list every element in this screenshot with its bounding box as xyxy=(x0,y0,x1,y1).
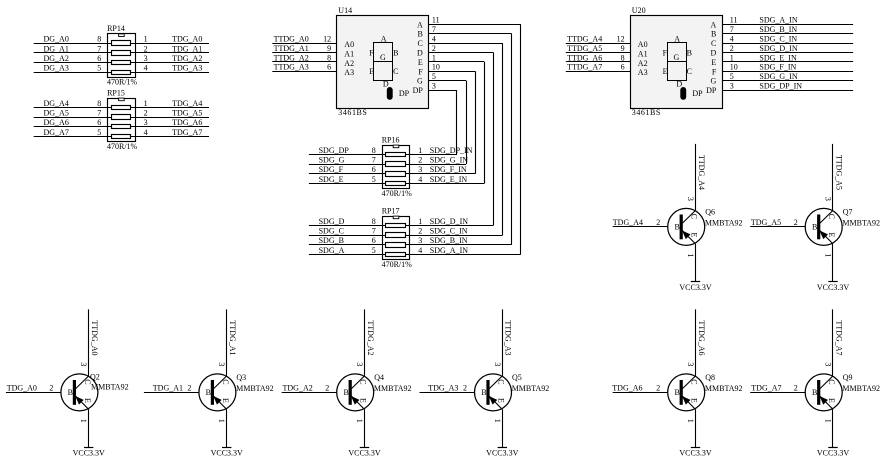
svg-text:SDG_D_IN: SDG_D_IN xyxy=(759,44,797,53)
resistor pack RP14 xyxy=(107,24,135,77)
svg-text:A: A xyxy=(417,20,423,29)
wire net SDG_G through RP16 pins 7/2 to net SDG_G_IN xyxy=(309,164,466,166)
svg-text:DG_A6: DG_A6 xyxy=(44,118,69,127)
svg-text:C: C xyxy=(687,67,692,76)
svg-text:F: F xyxy=(369,49,374,58)
svg-text:2: 2 xyxy=(432,44,436,53)
svg-text:11: 11 xyxy=(432,16,440,25)
svg-text:VCC3.3V: VCC3.3V xyxy=(211,449,243,458)
svg-text:E: E xyxy=(663,67,668,76)
svg-text:SDG_B_IN: SDG_B_IN xyxy=(759,25,797,34)
resistor pack RP17 xyxy=(382,206,410,259)
svg-text:A: A xyxy=(711,20,717,29)
svg-text:D: D xyxy=(383,80,389,89)
svg-text:6: 6 xyxy=(372,165,376,174)
svg-text:TTDG_A4: TTDG_A4 xyxy=(697,155,706,190)
svg-text:G: G xyxy=(711,77,717,86)
svg-text:TTDG_A0: TTDG_A0 xyxy=(274,35,309,44)
svg-text:DG_A4: DG_A4 xyxy=(44,99,69,108)
svg-text:TDG_A5: TDG_A5 xyxy=(751,218,781,227)
svg-text:C: C xyxy=(393,67,398,76)
svg-text:C: C xyxy=(711,39,716,48)
svg-text:3: 3 xyxy=(418,165,422,174)
svg-text:A0: A0 xyxy=(638,40,648,49)
power symbol VCC3.3V (Q9) xyxy=(828,447,837,449)
svg-text:3: 3 xyxy=(217,362,226,366)
bus wire segment E (vertical) xyxy=(484,62,486,184)
svg-text:SDG_E_IN: SDG_E_IN xyxy=(759,53,797,62)
svg-text:TDG_A7: TDG_A7 xyxy=(172,128,202,137)
wire net TDG_A4 to Q6 base pin 2 xyxy=(613,226,668,228)
wire collector net TTDG_A1 (Q3 pin 3) xyxy=(226,309,228,376)
svg-text:9: 9 xyxy=(621,44,625,53)
svg-text:C: C xyxy=(221,379,230,384)
svg-text:MMBTA92: MMBTA92 xyxy=(705,384,743,393)
svg-text:3461BS: 3461BS xyxy=(338,108,367,117)
svg-text:DG_A1: DG_A1 xyxy=(44,44,69,53)
svg-text:B: B xyxy=(674,223,679,232)
wire net TTDG_A1 to U14 pin 9 xyxy=(272,52,337,54)
svg-text:5: 5 xyxy=(97,128,101,137)
svg-text:470R/1%: 470R/1% xyxy=(107,78,138,87)
svg-text:2: 2 xyxy=(49,383,53,392)
wire U20 pin 10 segment F to net SDG_F_IN xyxy=(722,71,853,73)
svg-text:DG_A5: DG_A5 xyxy=(44,109,69,118)
wire net DG_A5 through RP15 pins 7/2 to net TDG_A5 xyxy=(34,117,209,119)
svg-text:TDG_A0: TDG_A0 xyxy=(172,35,202,44)
resistor element RP16.3 xyxy=(386,172,406,177)
svg-text:3: 3 xyxy=(824,197,833,201)
wire U20 pin 7 segment B to net SDG_B_IN xyxy=(722,33,853,35)
wire emitter to VCC3.3V (Q4 pin 1) xyxy=(364,409,366,447)
svg-text:10: 10 xyxy=(432,63,440,72)
wire net DG_A1 through RP14 pins 7/2 to net TDG_A1 xyxy=(34,52,209,54)
svg-text:TTDG_A3: TTDG_A3 xyxy=(274,63,309,72)
transistor Q7 MMBTA92 PNP xyxy=(805,208,842,245)
wire U14 pin 10 segment F to bus xyxy=(429,71,476,73)
display driver U14 (3461BS) xyxy=(337,6,429,109)
svg-text:TDG_A3: TDG_A3 xyxy=(172,64,202,73)
svg-text:C: C xyxy=(690,214,699,219)
svg-text:A2: A2 xyxy=(344,59,354,68)
svg-text:TDG_A1: TDG_A1 xyxy=(153,384,183,393)
resistor element RP15.1 xyxy=(112,106,131,110)
wire U20 pin 3 segment DP to net SDG_DP_IN xyxy=(722,90,853,92)
svg-text:RP14: RP14 xyxy=(107,24,125,33)
wire collector net TTDG_A0 (Q2 pin 3) xyxy=(88,309,90,376)
svg-text:C: C xyxy=(827,214,836,219)
svg-text:TDG_A4: TDG_A4 xyxy=(172,99,202,108)
svg-text:VCC3.3V: VCC3.3V xyxy=(679,449,711,458)
svg-text:VCC3.3V: VCC3.3V xyxy=(817,283,849,292)
svg-text:A1: A1 xyxy=(344,49,354,58)
svg-text:2: 2 xyxy=(187,383,191,392)
svg-text:8: 8 xyxy=(327,53,331,62)
svg-text:2: 2 xyxy=(794,218,798,227)
svg-text:G: G xyxy=(674,53,680,62)
wire net DG_A7 through RP15 pins 5/4 to net TDG_A7 xyxy=(34,136,209,138)
svg-text:1: 1 xyxy=(217,419,226,423)
resistor element RP15.2 xyxy=(112,115,131,120)
svg-text:U14: U14 xyxy=(338,6,352,15)
svg-text:4: 4 xyxy=(418,175,422,184)
svg-text:10: 10 xyxy=(730,63,738,72)
wire net DG_A3 through RP14 pins 5/4 to net TDG_A3 xyxy=(34,72,209,74)
decimal point mark (U20) xyxy=(680,87,686,100)
svg-text:E: E xyxy=(83,398,92,403)
wire emitter to VCC3.3V (Q7 pin 1) xyxy=(832,244,834,282)
wire U14 pin 1 segment E to bus xyxy=(429,61,485,63)
svg-text:4: 4 xyxy=(144,128,148,137)
bus wire segment F (vertical) xyxy=(475,71,477,174)
wire collector net TTDG_A6 (Q8 pin 3) xyxy=(695,309,697,376)
svg-text:B: B xyxy=(674,388,679,397)
decimal point mark (U14) xyxy=(387,87,393,100)
svg-text:VCC3.3V: VCC3.3V xyxy=(486,449,518,458)
svg-text:C: C xyxy=(417,39,422,48)
svg-text:TTDG_A2: TTDG_A2 xyxy=(274,53,309,62)
svg-text:3: 3 xyxy=(79,362,88,366)
resistor element RP15.4 xyxy=(112,135,131,139)
svg-text:E: E xyxy=(711,58,716,67)
svg-text:SDG_E_IN: SDG_E_IN xyxy=(430,175,468,184)
svg-text:Q8: Q8 xyxy=(705,373,715,382)
svg-text:MMBTA92: MMBTA92 xyxy=(512,384,550,393)
wire net SDG_C through RP17 pins 7/2 to net SDG_C_IN xyxy=(309,235,503,237)
svg-text:SDG_G_IN: SDG_G_IN xyxy=(430,156,468,165)
wire net TTDG_A0 to U14 pin 12 xyxy=(272,43,337,45)
svg-text:MMBTA92: MMBTA92 xyxy=(236,384,274,393)
svg-text:7: 7 xyxy=(372,227,376,236)
svg-text:RP17: RP17 xyxy=(382,206,400,215)
svg-text:12: 12 xyxy=(323,35,331,44)
wire net TTDG_A4 to U20 pin 12 xyxy=(566,43,631,45)
resistor element RP14.4 xyxy=(112,71,131,75)
resistor element RP16.4 xyxy=(386,182,406,186)
svg-text:SDG_A: SDG_A xyxy=(319,246,345,255)
svg-text:SDG_B: SDG_B xyxy=(319,236,344,245)
wire net DG_A2 through RP14 pins 6/3 to net TDG_A2 xyxy=(34,62,209,64)
svg-text:4: 4 xyxy=(730,35,734,44)
svg-text:8: 8 xyxy=(621,53,625,62)
resistor element RP17.4 xyxy=(386,253,406,257)
svg-text:470R/1%: 470R/1% xyxy=(382,260,413,269)
resistor element RP17.2 xyxy=(386,233,406,238)
wire U14 pin 4 segment C to bus xyxy=(429,43,503,45)
transistor Q8 MMBTA92 PNP xyxy=(668,374,705,411)
svg-text:1: 1 xyxy=(79,419,88,423)
svg-text:TTDG_A2: TTDG_A2 xyxy=(366,320,375,355)
svg-text:DP: DP xyxy=(413,86,424,95)
svg-text:3: 3 xyxy=(730,82,734,91)
svg-text:1: 1 xyxy=(686,253,695,257)
wire emitter to VCC3.3V (Q9 pin 1) xyxy=(832,409,834,447)
svg-text:SDG_C_IN: SDG_C_IN xyxy=(430,227,468,236)
svg-text:470R/1%: 470R/1% xyxy=(107,142,138,151)
wire net TDG_A7 to Q9 base pin 2 xyxy=(750,392,805,394)
svg-text:1: 1 xyxy=(824,419,833,423)
svg-text:MMBTA92: MMBTA92 xyxy=(374,384,412,393)
svg-text:F: F xyxy=(418,67,423,76)
svg-text:A: A xyxy=(381,34,387,43)
svg-text:6: 6 xyxy=(327,63,331,72)
transistor Q2 MMBTA92 PNP xyxy=(61,374,98,411)
svg-text:TTDG_A5: TTDG_A5 xyxy=(567,44,602,53)
svg-text:TDG_A3: TDG_A3 xyxy=(428,384,458,393)
svg-text:DG_A7: DG_A7 xyxy=(44,128,69,137)
svg-text:TDG_A2: TDG_A2 xyxy=(172,54,202,63)
svg-text:6: 6 xyxy=(97,118,101,127)
svg-text:SDG_E: SDG_E xyxy=(319,175,344,184)
power symbol VCC3.3V (Q6) xyxy=(691,281,700,283)
svg-text:D: D xyxy=(417,49,423,58)
svg-text:TDG_A5: TDG_A5 xyxy=(172,109,202,118)
wire U20 pin 5 segment G to net SDG_G_IN xyxy=(722,80,853,82)
svg-text:470R/1%: 470R/1% xyxy=(382,189,413,198)
power symbol VCC3.3V (Q5) xyxy=(498,447,507,449)
display driver U20 (3461BS) xyxy=(631,6,723,109)
svg-text:8: 8 xyxy=(372,146,376,155)
svg-text:7: 7 xyxy=(97,44,101,53)
wire emitter to VCC3.3V (Q2 pin 1) xyxy=(88,409,90,447)
svg-text:B: B xyxy=(812,223,817,232)
svg-text:TTDG_A4: TTDG_A4 xyxy=(567,35,602,44)
svg-text:2: 2 xyxy=(418,227,422,236)
wire net TDG_A1 to Q3 base pin 2 xyxy=(144,392,199,394)
svg-text:2: 2 xyxy=(730,44,734,53)
wire net SDG_A through RP17 pins 5/4 to net SDG_A_IN xyxy=(309,254,521,256)
svg-text:SDG_D: SDG_D xyxy=(319,217,345,226)
wire collector net TTDG_A7 (Q9 pin 3) xyxy=(832,309,834,376)
svg-text:3: 3 xyxy=(355,362,364,366)
svg-text:A: A xyxy=(674,34,680,43)
svg-text:TDG_A4: TDG_A4 xyxy=(613,218,643,227)
svg-text:3461BS: 3461BS xyxy=(632,108,661,117)
svg-text:E: E xyxy=(418,58,423,67)
transistor Q4 MMBTA92 PNP xyxy=(337,374,374,411)
svg-text:1: 1 xyxy=(418,146,422,155)
power symbol VCC3.3V (Q3) xyxy=(222,447,231,449)
svg-text:6: 6 xyxy=(621,63,625,72)
svg-text:2: 2 xyxy=(656,383,660,392)
wire net SDG_F through RP16 pins 6/3 to net SDG_F_IN xyxy=(309,173,475,175)
svg-text:DG_A2: DG_A2 xyxy=(44,54,69,63)
svg-text:Q7: Q7 xyxy=(843,208,853,217)
svg-text:1: 1 xyxy=(493,419,502,423)
svg-text:6: 6 xyxy=(372,236,376,245)
svg-text:TTDG_A5: TTDG_A5 xyxy=(834,155,843,190)
resistor element RP15.3 xyxy=(112,125,131,129)
wire net TTDG_A5 to U20 pin 9 xyxy=(566,52,631,54)
svg-text:G: G xyxy=(380,53,386,62)
svg-text:7: 7 xyxy=(730,25,734,34)
wire net SDG_B through RP17 pins 6/3 to net SDG_B_IN xyxy=(309,244,512,246)
wire net TTDG_A2 to U14 pin 8 xyxy=(272,61,337,63)
svg-text:DP: DP xyxy=(706,86,717,95)
svg-text:A3: A3 xyxy=(344,68,354,77)
svg-text:2: 2 xyxy=(463,383,467,392)
bus wire segment G (vertical) xyxy=(466,81,468,164)
svg-text:SDG_C_IN: SDG_C_IN xyxy=(759,35,797,44)
svg-text:3: 3 xyxy=(418,236,422,245)
wire net TTDG_A3 to U14 pin 6 xyxy=(272,71,337,73)
svg-text:DP: DP xyxy=(692,89,703,98)
resistor element RP14.3 xyxy=(112,61,131,65)
svg-text:1: 1 xyxy=(144,99,148,108)
svg-text:B: B xyxy=(206,388,211,397)
svg-text:MMBTA92: MMBTA92 xyxy=(842,218,880,227)
svg-text:3: 3 xyxy=(432,82,436,91)
svg-text:5: 5 xyxy=(730,72,734,81)
bus wire segment C (vertical) xyxy=(502,43,504,235)
svg-text:RP15: RP15 xyxy=(107,88,125,97)
svg-text:3: 3 xyxy=(824,362,833,366)
wire U20 pin 2 segment D to net SDG_D_IN xyxy=(722,52,853,54)
wire emitter to VCC3.3V (Q6 pin 1) xyxy=(695,244,697,282)
resistor pack RP16 xyxy=(382,135,410,188)
svg-text:3: 3 xyxy=(493,362,502,366)
svg-text:A1: A1 xyxy=(638,49,648,58)
bus wire segment A (vertical) xyxy=(520,24,522,254)
svg-text:SDG_B_IN: SDG_B_IN xyxy=(430,236,468,245)
svg-text:4: 4 xyxy=(432,35,436,44)
svg-text:DG_A0: DG_A0 xyxy=(44,35,69,44)
wire net DG_A4 through RP15 pins 8/1 to net TDG_A4 xyxy=(34,107,209,109)
power symbol VCC3.3V (Q7) xyxy=(828,281,837,283)
svg-text:VCC3.3V: VCC3.3V xyxy=(73,449,105,458)
svg-text:1: 1 xyxy=(355,419,364,423)
svg-text:TTDG_A1: TTDG_A1 xyxy=(274,44,309,53)
transistor Q6 MMBTA92 PNP xyxy=(668,208,705,245)
svg-text:SDG_A_IN: SDG_A_IN xyxy=(430,246,468,255)
svg-text:MMBTA92: MMBTA92 xyxy=(705,218,743,227)
svg-text:E: E xyxy=(359,398,368,403)
wire net TTDG_A6 to U20 pin 8 xyxy=(566,61,631,63)
svg-text:E: E xyxy=(221,398,230,403)
transistor Q3 MMBTA92 PNP xyxy=(199,374,236,411)
bus wire segment B (vertical) xyxy=(511,34,513,245)
wire net DG_A6 through RP15 pins 6/3 to net TDG_A6 xyxy=(34,126,209,128)
wire collector net TTDG_A4 (Q6 pin 3) xyxy=(695,144,697,211)
svg-text:B: B xyxy=(417,30,422,39)
svg-text:E: E xyxy=(369,67,374,76)
wire collector net TTDG_A3 (Q5 pin 3) xyxy=(502,309,504,376)
svg-text:3: 3 xyxy=(144,118,148,127)
svg-text:TDG_A0: TDG_A0 xyxy=(7,384,37,393)
svg-text:Q9: Q9 xyxy=(843,373,853,382)
wire U20 pin 4 segment C to net SDG_C_IN xyxy=(722,43,853,45)
wire U20 pin 11 segment A to net SDG_A_IN xyxy=(722,24,853,26)
svg-text:D: D xyxy=(676,80,682,89)
bus wire segment D (vertical) xyxy=(493,53,495,226)
wire net SDG_E through RP16 pins 5/4 to net SDG_E_IN xyxy=(309,183,484,185)
svg-text:B: B xyxy=(393,49,398,58)
svg-text:SDG_F_IN: SDG_F_IN xyxy=(430,165,467,174)
svg-text:SDG_D_IN: SDG_D_IN xyxy=(430,217,468,226)
svg-text:SDG_DP_IN: SDG_DP_IN xyxy=(759,82,802,91)
power symbol VCC3.3V (Q8) xyxy=(691,447,700,449)
svg-text:1: 1 xyxy=(686,419,695,423)
wire collector net TTDG_A5 (Q7 pin 3) xyxy=(832,144,834,211)
svg-text:SDG_G_IN: SDG_G_IN xyxy=(759,72,797,81)
resistor element RP14.1 xyxy=(112,41,131,46)
svg-text:1: 1 xyxy=(144,35,148,44)
svg-text:5: 5 xyxy=(97,64,101,73)
bus wire segment DP (vertical) xyxy=(456,90,458,154)
svg-text:E: E xyxy=(690,398,699,403)
svg-text:VCC3.3V: VCC3.3V xyxy=(348,449,380,458)
wire emitter to VCC3.3V (Q3 pin 1) xyxy=(226,409,228,447)
svg-text:B: B xyxy=(812,388,817,397)
svg-text:Q3: Q3 xyxy=(236,373,246,382)
svg-text:E: E xyxy=(827,398,836,403)
svg-text:2: 2 xyxy=(656,218,660,227)
svg-text:7: 7 xyxy=(432,25,436,34)
svg-text:SDG_A_IN: SDG_A_IN xyxy=(759,16,797,25)
svg-text:5: 5 xyxy=(372,175,376,184)
svg-text:F: F xyxy=(663,49,668,58)
svg-text:B: B xyxy=(343,388,348,397)
svg-text:2: 2 xyxy=(144,44,148,53)
wire net TDG_A2 to Q4 base pin 2 xyxy=(282,392,337,394)
wire U14 pin 2 segment D to bus xyxy=(429,52,494,54)
resistor element RP16.2 xyxy=(386,162,406,167)
wire U14 pin 5 segment G to bus xyxy=(429,80,467,82)
svg-text:SDG_F: SDG_F xyxy=(319,165,344,174)
power symbol VCC3.3V (Q4) xyxy=(360,447,369,449)
svg-text:8: 8 xyxy=(97,35,101,44)
svg-text:8: 8 xyxy=(97,99,101,108)
transistor Q5 MMBTA92 PNP xyxy=(475,374,512,411)
svg-text:TTDG_A3: TTDG_A3 xyxy=(504,320,513,355)
svg-text:8: 8 xyxy=(372,217,376,226)
svg-text:12: 12 xyxy=(617,35,625,44)
svg-text:A2: A2 xyxy=(638,59,648,68)
svg-text:2: 2 xyxy=(794,383,798,392)
svg-text:TTDG_A0: TTDG_A0 xyxy=(90,320,99,355)
svg-text:TTDG_A7: TTDG_A7 xyxy=(567,63,602,72)
svg-text:C: C xyxy=(690,379,699,384)
svg-text:SDG_C: SDG_C xyxy=(319,227,344,236)
svg-text:3: 3 xyxy=(686,362,695,366)
svg-text:1: 1 xyxy=(418,217,422,226)
svg-text:4: 4 xyxy=(144,64,148,73)
svg-text:G: G xyxy=(417,77,423,86)
svg-text:TDG_A6: TDG_A6 xyxy=(612,384,642,393)
wire U14 pin 3 segment DP to bus xyxy=(429,90,458,92)
svg-text:7: 7 xyxy=(97,109,101,118)
svg-text:3: 3 xyxy=(686,197,695,201)
svg-text:A3: A3 xyxy=(638,68,648,77)
svg-text:RP16: RP16 xyxy=(382,135,400,144)
svg-text:VCC3.3V: VCC3.3V xyxy=(679,283,711,292)
wire emitter to VCC3.3V (Q5 pin 1) xyxy=(502,409,504,447)
svg-text:VCC3.3V: VCC3.3V xyxy=(817,449,849,458)
wire net SDG_DP through RP16 pins 8/1 to net SDG_DP_IN xyxy=(309,154,457,156)
svg-text:E: E xyxy=(497,398,506,403)
svg-text:B: B xyxy=(481,388,486,397)
svg-text:U20: U20 xyxy=(632,6,646,15)
svg-text:DG_A3: DG_A3 xyxy=(44,64,69,73)
svg-text:B: B xyxy=(68,388,73,397)
svg-text:SDG_G: SDG_G xyxy=(319,156,345,165)
svg-text:11: 11 xyxy=(730,16,738,25)
svg-text:A0: A0 xyxy=(344,40,354,49)
resistor element RP16.1 xyxy=(386,153,406,157)
svg-text:C: C xyxy=(359,379,368,384)
svg-text:MMBTA92: MMBTA92 xyxy=(91,383,129,392)
svg-text:2: 2 xyxy=(325,383,329,392)
